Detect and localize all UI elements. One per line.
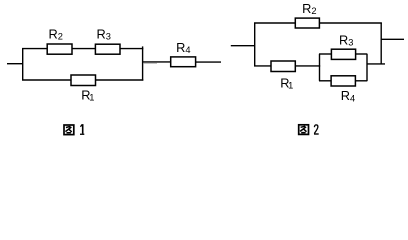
wire: fig2 connector from inner loop to outer right vertical — [367, 63, 385, 65]
wire: fig2 inner bottom branch segment left of R4 — [319, 80, 331, 82]
caption fig1: hand-drawn CJK glyph 图 — [64, 125, 74, 135]
svg-text:R2: R2 — [302, 1, 316, 16]
wire: fig2 top branch segment left of R2 — [254, 22, 295, 24]
wire: fig2 right output lead — [381, 38, 404, 40]
wire: fig2 inner-loop left vertical — [319, 54, 321, 81]
resistor R4 (fig1) — [171, 57, 196, 67]
wire: fig1 top branch segment right of R3 — [120, 48, 143, 50]
wire: fig2 bottom branch segment left of R1 — [254, 65, 271, 67]
wire: fig1 output segment between loop and R4 — [143, 61, 171, 63]
resistor R3 (fig2) — [331, 49, 355, 59]
svg-text:R1: R1 — [280, 75, 293, 90]
wire: fig2 inner-loop right vertical — [366, 54, 368, 81]
wire: fig2 inner bottom branch segment right of R4 — [355, 80, 367, 82]
wire: fig2 inner top branch segment right of R3 — [356, 53, 368, 55]
svg-text:R1: R1 — [81, 88, 94, 103]
svg-text:R3: R3 — [339, 32, 353, 47]
svg-text:R3: R3 — [97, 26, 111, 41]
wire: fig1 parallel-loop right vertical (with small stub above corner) — [142, 46, 144, 80]
svg-text:R4: R4 — [176, 40, 190, 55]
wire: fig2 outer-loop left vertical — [254, 23, 256, 66]
svg-text:R4: R4 — [341, 88, 355, 103]
wire: fig1 bottom branch segment right of R1 — [96, 79, 144, 81]
wire: fig2 left lead-in — [231, 45, 255, 47]
resistor R1 (fig2) — [271, 61, 295, 72]
wire: fig1 left lead-in — [7, 63, 23, 65]
wire: fig1 top branch segment left of R2 — [22, 48, 47, 50]
wire: fig1 parallel-loop left vertical — [22, 49, 24, 80]
caption fig2: numeral 2 — [314, 125, 319, 134]
wire: fig2 top branch segment right of R2 — [319, 22, 382, 24]
resistor R2 (fig2) — [295, 18, 319, 28]
resistor R4 (fig2) — [331, 76, 355, 86]
wire: fig1 bottom branch segment left of R1 — [22, 79, 71, 81]
wire: fig1 output segment right of R4 — [196, 61, 221, 63]
caption fig1: numeral 1 — [80, 124, 84, 135]
resistor R3 (fig1) — [95, 44, 120, 54]
svg-text:R2: R2 — [49, 26, 63, 41]
wire: fig2 outer-loop right vertical — [380, 23, 382, 64]
caption fig2: hand-drawn CJK glyph 图 — [299, 125, 309, 135]
wire: fig2 segment between R1 and inner loop — [295, 65, 320, 67]
resistor R1 (fig1) — [71, 75, 96, 86]
wire: fig2 inner top branch segment left of R3 — [319, 53, 331, 55]
resistor R2 (fig1) — [47, 44, 72, 54]
wire: fig1 top branch segment between R2 and R3 — [72, 48, 95, 50]
